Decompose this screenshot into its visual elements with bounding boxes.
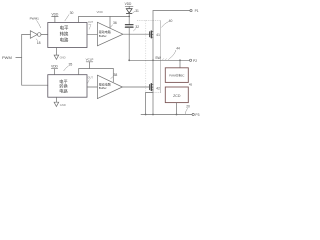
wire buffer36 output to gate xyxy=(123,33,150,35)
junction bottom zcd xyxy=(176,114,178,116)
junction SW box tap xyxy=(179,59,181,61)
transistor M2 42 xyxy=(150,84,154,91)
junction bootstrap rail xyxy=(128,16,130,18)
diode 31 xyxy=(126,9,132,17)
op-amp buffer 36 xyxy=(97,22,123,46)
wire source down left xyxy=(145,93,147,115)
junction SW cap xyxy=(128,59,130,61)
terminal P2 xyxy=(190,59,192,61)
wire diode to cap xyxy=(128,16,130,24)
power VDD bottom block xyxy=(51,65,58,75)
svg-text:Buffer: Buffer xyxy=(99,86,107,90)
svg-text:OUT: OUT xyxy=(88,21,94,24)
svg-text:VCLP: VCLP xyxy=(86,58,94,62)
svg-text:35: 35 xyxy=(69,63,73,67)
label 36 leader xyxy=(110,25,112,28)
svg-text:GND: GND xyxy=(60,56,66,60)
svg-text:45: 45 xyxy=(189,83,193,87)
ground below top block xyxy=(54,48,66,60)
svg-text:P2: P2 xyxy=(193,59,197,63)
wire buffer38 supply tap xyxy=(112,69,114,82)
block 30 text xyxy=(60,24,69,43)
svg-text:GND: GND xyxy=(60,103,66,107)
svg-text:18: 18 xyxy=(37,41,41,45)
svg-text:Buffer: Buffer xyxy=(99,34,107,38)
svg-text:转换: 转换 xyxy=(60,30,69,37)
wire SW rail xyxy=(129,59,189,61)
label 18 leader xyxy=(36,39,37,41)
svg-text:VDD: VDD xyxy=(51,65,58,69)
wire buffer38 output to gate xyxy=(122,86,150,88)
terminal P3 xyxy=(192,113,194,115)
svg-text:P1: P1 xyxy=(195,9,199,13)
inverter 18 xyxy=(30,31,48,39)
svg-text:30: 30 xyxy=(70,11,74,15)
label 31 leader xyxy=(133,11,135,12)
label 30 leader xyxy=(65,15,69,21)
wire block30 output xyxy=(87,33,97,35)
block 34 level-shift bottom xyxy=(48,75,87,98)
svg-text:42: 42 xyxy=(156,87,160,91)
svg-text:电路: 电路 xyxy=(59,88,68,95)
wire cap to SW xyxy=(128,27,130,60)
buffer 36 text xyxy=(99,29,111,38)
svg-text:38: 38 xyxy=(114,73,118,77)
junction bottom bridge xyxy=(152,114,154,116)
transistor M1 41 xyxy=(150,31,154,38)
wire buffer36 supply tap xyxy=(109,16,111,28)
label 20 leader xyxy=(185,108,187,114)
svg-text:40: 40 xyxy=(169,19,173,23)
terminal P1 xyxy=(190,10,192,12)
power VDD bootstrap xyxy=(125,2,133,9)
op-amp buffer 38 xyxy=(97,75,122,98)
wire input trunk vertical xyxy=(21,35,23,86)
wire bottom rail xyxy=(141,114,192,116)
svg-text:PWM控制IC: PWM控制IC xyxy=(169,73,184,77)
ground below bottom block xyxy=(54,97,66,107)
svg-text:36: 36 xyxy=(113,21,117,25)
wire SW to box1 xyxy=(179,60,181,68)
label 44 leader arc xyxy=(170,50,176,58)
wire to inverter xyxy=(22,34,31,36)
block 34 text xyxy=(59,78,68,95)
svg-text:44: 44 xyxy=(176,46,180,50)
wire VCLP rail xyxy=(79,69,114,75)
svg-text:20: 20 xyxy=(186,105,190,109)
label 32 leader xyxy=(133,29,135,31)
svg-text:41: 41 xyxy=(156,33,160,37)
capacitor 32 xyxy=(125,25,133,27)
svg-text:ZCD: ZCD xyxy=(173,94,181,98)
power VCLP xyxy=(86,58,94,69)
power VDD top-left xyxy=(52,12,59,22)
svg-text:P3: P3 xyxy=(195,113,199,117)
svg-text:电路: 电路 xyxy=(60,36,69,43)
box PWM control IC xyxy=(165,68,188,83)
wire top rail to P1 xyxy=(153,10,190,12)
wire block34 output xyxy=(87,86,97,88)
svg-text:电平: 电平 xyxy=(60,24,69,31)
hatch ticks on SW wire xyxy=(162,59,169,61)
wire bootstrap rail from block top xyxy=(79,16,130,22)
wire to bottom block xyxy=(22,84,48,86)
wire PWM input xyxy=(16,57,22,59)
svg-text:VDD: VDD xyxy=(125,2,132,6)
label PWM1 leader xyxy=(37,20,41,27)
wire ZCD to bottom rail xyxy=(176,103,178,115)
label 38 leader xyxy=(111,77,113,79)
junction bottom left xyxy=(145,114,147,116)
svg-text:SW: SW xyxy=(155,56,161,60)
svg-text:OUT: OUT xyxy=(88,77,94,80)
box ZCD xyxy=(165,87,188,103)
chip 40 dashed outline xyxy=(137,20,160,22)
wire M2 source jog xyxy=(146,92,153,94)
label 35 leader xyxy=(64,66,69,71)
svg-text:32: 32 xyxy=(135,25,139,29)
buffer 38 text xyxy=(99,82,111,91)
svg-text:VDD: VDD xyxy=(97,10,104,14)
junction SW bridge xyxy=(152,59,154,61)
svg-text:VDD: VDD xyxy=(52,12,59,16)
svg-text:31: 31 xyxy=(135,9,139,13)
wire half-bridge vertical xyxy=(152,11,154,115)
label 40 leader xyxy=(162,22,169,28)
svg-text:PWM1: PWM1 xyxy=(30,17,40,21)
block 30 level-shift top xyxy=(48,23,87,48)
svg-text:PWM: PWM xyxy=(2,55,12,60)
